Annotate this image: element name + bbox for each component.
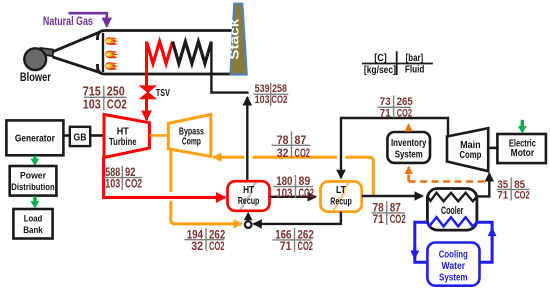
svg-text:71: 71 [373, 214, 385, 226]
svg-text:Recup: Recup [238, 196, 260, 207]
label 715/250 103/CO2 [83, 84, 127, 112]
wire LT recup out to node [254, 212, 341, 224]
svg-text:CO2: CO2 [209, 239, 225, 253]
flame 2 [105, 51, 118, 59]
svg-text:CO2: CO2 [397, 108, 413, 120]
wire main comp to LT recup [341, 118, 448, 178]
svg-text:92: 92 [125, 167, 136, 179]
compressor bypass [168, 115, 211, 157]
wire generator to power distribution (green) [33, 156, 36, 160]
wire cooler to main comp [477, 173, 489, 196]
cooler box [427, 189, 477, 231]
label 539/258 103/CO2 [254, 83, 289, 107]
svg-text:[kg/sec]: [kg/sec] [364, 65, 396, 76]
generator G1 [6, 120, 63, 155]
shaft generator-GB [63, 134, 69, 137]
wire turbine out to HT recup (red) [104, 157, 226, 198]
svg-text:Comp: Comp [459, 149, 481, 161]
shaft turbine-bypass (orange) [149, 134, 168, 137]
load bank box [13, 209, 52, 239]
svg-text:CO2: CO2 [514, 190, 530, 202]
label 180/89 103/CO2 [273, 174, 314, 200]
svg-text:CO2: CO2 [298, 239, 314, 253]
svg-text:Water: Water [442, 261, 466, 272]
inventory system box [387, 132, 430, 163]
svg-text:Generator: Generator [15, 133, 55, 145]
wire TSV to HT turbine [145, 98, 148, 120]
wire bypass comp out to node (orange) [171, 150, 240, 224]
svg-text:[bar]: [bar] [406, 53, 424, 64]
wire coil inlet drop [211, 42, 248, 93]
svg-text:LT: LT [336, 185, 346, 196]
svg-text:Power: Power [20, 171, 46, 182]
blower B1 [24, 48, 46, 70]
cooler water coil (blue) [427, 217, 477, 226]
legend units table [362, 51, 433, 76]
heater coil section (black) [173, 42, 212, 64]
duct top wire [98, 31, 234, 41]
svg-text:71: 71 [497, 190, 508, 202]
svg-text:Distribution: Distribution [11, 182, 55, 193]
svg-text:CO2: CO2 [390, 214, 406, 226]
svg-text:System: System [439, 273, 468, 284]
svg-text:103: 103 [255, 94, 270, 106]
svg-text:87: 87 [390, 203, 401, 215]
wire node to HT recup [247, 219, 249, 222]
label 78/87 32/CO2 [272, 132, 311, 160]
svg-text:Bank: Bank [23, 225, 43, 236]
flame 1 [105, 37, 118, 45]
svg-text:[C]: [C] [374, 53, 387, 64]
compressor main [447, 128, 488, 171]
svg-text:Recup: Recup [330, 196, 352, 207]
wire power to electric motor (green) [521, 120, 524, 127]
wire cooling water system to cooler (blue) [477, 222, 492, 262]
svg-text:CO2: CO2 [299, 186, 315, 200]
svg-text:CO2: CO2 [295, 146, 311, 160]
turbine HT [104, 115, 149, 158]
shaft GB-turbine [90, 134, 104, 137]
svg-text:265: 265 [397, 96, 413, 108]
svg-text:71: 71 [380, 108, 391, 120]
svg-text:Turbine: Turbine [109, 136, 137, 148]
HT recuperator [228, 181, 270, 211]
duct bottom wire [98, 64, 248, 74]
wire HT recup to heater riser [246, 97, 248, 181]
svg-text:CO2: CO2 [107, 96, 127, 111]
svg-text:32: 32 [191, 239, 203, 253]
wire power distribution to load bank (green) [33, 196, 36, 201]
svg-text:Blower: Blower [20, 70, 51, 84]
wire recycle to bypass comp (orange) [253, 157, 374, 196]
burner wall [102, 33, 104, 72]
power distribution box [10, 166, 57, 196]
heater coil hot section (red) [147, 42, 173, 64]
svg-text:Comp: Comp [182, 136, 201, 148]
svg-text:Inventory: Inventory [391, 138, 427, 149]
svg-text:103: 103 [105, 179, 120, 191]
svg-text:73: 73 [380, 96, 391, 108]
svg-text:71: 71 [280, 239, 292, 253]
label 588/92 103/CO2 [104, 166, 143, 191]
cooler hot side coil [427, 193, 477, 202]
wire inventory to HP line (dashed orange) [407, 124, 410, 131]
svg-text:Cooling: Cooling [439, 250, 468, 261]
svg-text:588: 588 [105, 167, 120, 179]
svg-text:Stack: Stack [227, 18, 242, 60]
label 166/262 71/CO2 [273, 227, 315, 253]
stack [231, 4, 247, 75]
svg-text:103: 103 [276, 186, 293, 200]
svg-text:CO2: CO2 [271, 94, 287, 106]
blower outlet tab [41, 48, 53, 56]
natural gas feed arrow [69, 13, 107, 26]
label 73/265 71/CO2 [377, 96, 413, 120]
svg-text:HT: HT [243, 185, 254, 196]
LT recuperator [321, 182, 362, 212]
flame 3 [105, 62, 118, 70]
svg-text:103: 103 [83, 96, 101, 111]
cooling water system box [427, 243, 479, 286]
wire HT recup to LT recup [270, 196, 316, 198]
label 78/87 71/CO2 [371, 202, 405, 227]
svg-text:Natural Gas: Natural Gas [43, 14, 93, 28]
svg-text:CO2: CO2 [125, 179, 142, 191]
svg-text:Cooler: Cooler [441, 205, 464, 217]
wire LT recup to cooler [362, 195, 423, 197]
label 35/85 71/CO2 [497, 178, 530, 202]
wire inventory suction horizontal (dashed orange) [409, 180, 488, 183]
label 194/262 32/CO2 [185, 227, 226, 252]
valve TSV [140, 86, 155, 99]
wire red coil to TSV [145, 42, 148, 87]
duct cone top wire [53, 32, 100, 52]
duct cone bottom wire [53, 57, 101, 73]
svg-text:Load: Load [24, 214, 43, 225]
electric motor box [497, 134, 546, 163]
wire suction line to inventory (dashed orange) [407, 167, 410, 182]
svg-text:78: 78 [373, 203, 385, 215]
svg-text:GB: GB [74, 131, 87, 143]
svg-text:Fluid: Fluid [405, 65, 425, 76]
svg-text:Motor: Motor [511, 147, 535, 159]
gearbox GB [70, 127, 90, 146]
svg-text:32: 32 [277, 146, 289, 160]
wire cooler to cooling water system (blue) [415, 222, 428, 262]
svg-text:TSV: TSV [156, 88, 170, 99]
mixing node [245, 221, 252, 228]
shaft main comp - electric motor [488, 147, 497, 150]
svg-text:System: System [395, 149, 423, 160]
